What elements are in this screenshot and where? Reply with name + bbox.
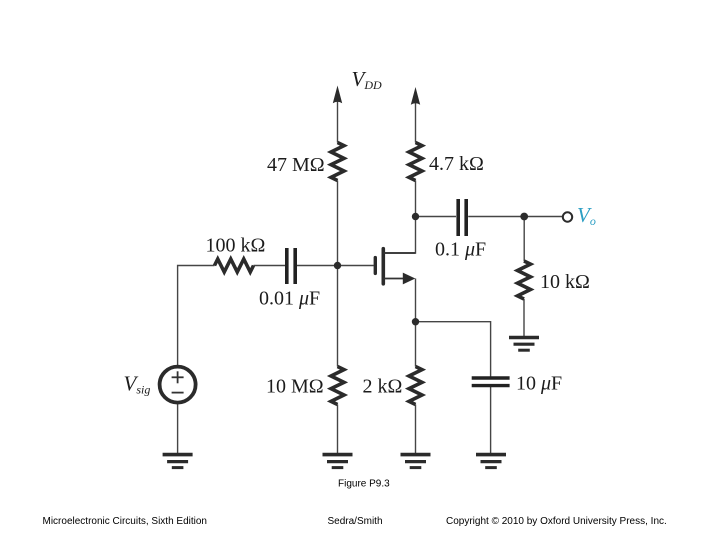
resistor 4.7 kohm xyxy=(409,143,422,181)
svg-text:Sedra/Smith: Sedra/Smith xyxy=(328,516,383,527)
ground 10k xyxy=(509,338,539,351)
wire 10uF cap to ground xyxy=(490,387,492,454)
wire VDD stem left xyxy=(337,99,339,143)
resistor 10 kohm xyxy=(518,261,531,299)
svg-text:Vsig: Vsig xyxy=(124,372,151,397)
svg-text:2 kΩ: 2 kΩ xyxy=(363,376,403,398)
node drain xyxy=(412,213,419,220)
wire 2k bottom to ground xyxy=(415,405,417,454)
wire 100k to 0.01uF cap xyxy=(254,265,286,267)
transistor Q1 NMOS xyxy=(375,249,415,285)
capacitor 0.1 uF xyxy=(458,199,466,236)
resistor 2 kohm xyxy=(409,367,422,405)
ground 2k xyxy=(401,455,431,468)
svg-text:Figure P9.3: Figure P9.3 xyxy=(338,479,390,490)
svg-text:10 kΩ: 10 kΩ xyxy=(540,271,590,293)
resistor 47 Mohm xyxy=(331,143,344,181)
wire Vsig bottom to ground xyxy=(177,404,179,453)
svg-text:10 μF: 10 μF xyxy=(516,373,562,395)
wire input corner to 100k resistor xyxy=(178,266,215,366)
svg-text:47 MΩ: 47 MΩ xyxy=(267,154,325,176)
svg-text:0.1 μF: 0.1 μF xyxy=(435,239,486,261)
ground 10uF xyxy=(476,455,506,468)
node source xyxy=(412,318,419,325)
capacitor 0.01 uF xyxy=(287,248,295,284)
svg-text:4.7 kΩ: 4.7 kΩ xyxy=(429,153,484,175)
ground 10M xyxy=(323,455,353,468)
wire Vo node down to 10k xyxy=(523,217,525,262)
wire 10M bottom to ground xyxy=(337,405,339,454)
resistor 100 kohm xyxy=(215,259,254,272)
svg-text:Copyright © 2010 by Oxford Uni: Copyright © 2010 by Oxford University Pr… xyxy=(446,516,667,527)
svg-text:Vo: Vo xyxy=(577,203,596,228)
resistor 10 Mohm xyxy=(331,367,344,405)
terminal Vo open circle xyxy=(563,212,572,221)
wire source lead down to 2k xyxy=(415,279,417,367)
node Vo xyxy=(520,213,528,221)
node gate xyxy=(334,262,341,269)
svg-text:0.01 μF: 0.01 μF xyxy=(259,288,320,310)
arrowhead VDD left xyxy=(333,86,342,104)
wire drain node to 0.1uF cap xyxy=(416,216,457,218)
wire 4.7k bottom to drain corner xyxy=(384,181,416,254)
wire 0.1uF cap to Vo terminal xyxy=(468,216,563,218)
svg-text:VDD: VDD xyxy=(352,67,382,92)
wire VDD stem right xyxy=(415,101,417,143)
svg-text:Microelectronic Circuits, Sixt: Microelectronic Circuits, Sixth Edition xyxy=(43,516,208,527)
wire source node to 10uF cap xyxy=(416,322,491,377)
ground Vsig xyxy=(163,455,193,468)
wire 10k bottom to ground xyxy=(523,299,525,336)
capacitor 10 uF xyxy=(472,378,510,386)
svg-text:100 kΩ: 100 kΩ xyxy=(206,235,266,257)
wire 0.01uF cap to gate node xyxy=(297,265,338,267)
arrowhead VDD right xyxy=(411,87,420,105)
source Vsig xyxy=(160,367,196,403)
wire 47M bottom to 10M top (gate column) xyxy=(337,181,339,367)
svg-text:10 MΩ: 10 MΩ xyxy=(266,376,324,398)
wire gate node to MOSFET gate xyxy=(338,265,374,267)
